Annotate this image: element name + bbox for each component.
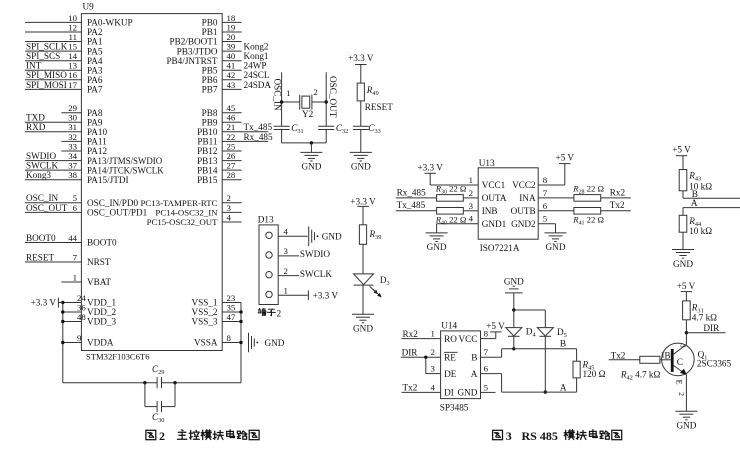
svg-text:OSC_IN: OSC_IN bbox=[272, 79, 282, 112]
svg-text:+5 V: +5 V bbox=[677, 281, 696, 291]
svg-text:GND: GND bbox=[427, 242, 447, 252]
svg-text:+3.3 V: +3.3 V bbox=[313, 290, 339, 300]
svg-text:D13: D13 bbox=[258, 215, 274, 225]
svg-text:1: 1 bbox=[661, 349, 665, 359]
svg-text:18: 18 bbox=[227, 13, 236, 23]
svg-text:2: 2 bbox=[313, 87, 317, 97]
svg-text:4: 4 bbox=[284, 226, 289, 236]
svg-text:SPI_SCLK: SPI_SCLK bbox=[26, 42, 68, 52]
svg-text:2: 2 bbox=[159, 429, 165, 443]
svg-text:4.7 kΩ: 4.7 kΩ bbox=[692, 313, 717, 323]
svg-text:RO: RO bbox=[444, 334, 457, 344]
svg-text:1: 1 bbox=[430, 329, 434, 339]
svg-text:23: 23 bbox=[227, 293, 236, 303]
svg-text:PA8: PA8 bbox=[87, 108, 103, 118]
svg-text:20: 20 bbox=[227, 32, 236, 42]
svg-text:2SC3365: 2SC3365 bbox=[697, 359, 732, 369]
svg-text:5: 5 bbox=[484, 382, 489, 392]
svg-text:DIR: DIR bbox=[703, 323, 720, 333]
svg-text:OSC_OUT: OSC_OUT bbox=[26, 203, 68, 213]
svg-text:PA13/JTMS/SWDIO: PA13/JTMS/SWDIO bbox=[87, 156, 163, 166]
svg-text:26: 26 bbox=[227, 151, 236, 161]
svg-text:2: 2 bbox=[277, 308, 282, 318]
svg-text:3: 3 bbox=[678, 344, 685, 348]
svg-text:2: 2 bbox=[430, 347, 434, 357]
svg-text:43: 43 bbox=[227, 80, 236, 90]
svg-text:Kong3: Kong3 bbox=[26, 170, 51, 180]
svg-text:SWCLK: SWCLK bbox=[300, 269, 333, 279]
svg-text:B: B bbox=[665, 351, 671, 361]
svg-text:3: 3 bbox=[284, 246, 289, 256]
svg-text:7: 7 bbox=[484, 347, 489, 357]
svg-text:PB3/JTDO: PB3/JTDO bbox=[177, 46, 218, 56]
svg-text:44: 44 bbox=[68, 233, 77, 243]
svg-text:4: 4 bbox=[469, 214, 474, 224]
svg-text:+3.3 V: +3.3 V bbox=[31, 298, 57, 308]
svg-text:VCC1: VCC1 bbox=[482, 180, 506, 190]
svg-text:VSS_2: VSS_2 bbox=[191, 307, 217, 317]
svg-text:3: 3 bbox=[469, 201, 474, 211]
svg-text:PA7: PA7 bbox=[87, 85, 103, 95]
svg-text:4: 4 bbox=[430, 382, 435, 392]
svg-text:1: 1 bbox=[284, 286, 288, 296]
svg-text:A: A bbox=[471, 369, 478, 379]
svg-text:2: 2 bbox=[227, 193, 231, 203]
svg-text:PB8: PB8 bbox=[202, 108, 218, 118]
svg-text:12: 12 bbox=[68, 22, 77, 32]
svg-text:PB7: PB7 bbox=[202, 85, 218, 95]
svg-text:RESET: RESET bbox=[26, 252, 54, 262]
svg-text:Tx_485: Tx_485 bbox=[397, 200, 426, 210]
svg-text:6: 6 bbox=[484, 364, 489, 374]
svg-text:GND: GND bbox=[504, 276, 524, 286]
svg-text:PB10: PB10 bbox=[197, 127, 218, 137]
svg-text:RESET: RESET bbox=[365, 102, 393, 112]
svg-text:Rx2: Rx2 bbox=[610, 187, 626, 197]
svg-text:37: 37 bbox=[68, 161, 77, 171]
svg-text:BOOT0: BOOT0 bbox=[26, 233, 56, 243]
svg-text:GND: GND bbox=[546, 242, 566, 252]
svg-text:6: 6 bbox=[73, 203, 78, 213]
svg-text:GND: GND bbox=[265, 338, 285, 348]
svg-text:ISO7221A: ISO7221A bbox=[480, 243, 520, 253]
svg-text:15: 15 bbox=[68, 42, 77, 52]
svg-text:B: B bbox=[471, 353, 477, 363]
svg-text:21: 21 bbox=[227, 122, 236, 132]
svg-text:Rx2: Rx2 bbox=[403, 329, 419, 339]
svg-text:25: 25 bbox=[227, 141, 236, 151]
svg-text:GND: GND bbox=[353, 324, 373, 334]
svg-text:45: 45 bbox=[227, 103, 236, 113]
svg-text:5: 5 bbox=[543, 214, 548, 224]
svg-text:29: 29 bbox=[68, 103, 77, 113]
svg-text:42: 42 bbox=[227, 70, 236, 80]
svg-text:PA6: PA6 bbox=[87, 75, 103, 85]
svg-text:22: 22 bbox=[227, 132, 236, 142]
svg-text:DE: DE bbox=[444, 369, 457, 379]
svg-text:PC13-TAMPER-RTC: PC13-TAMPER-RTC bbox=[141, 198, 218, 208]
svg-text:U9: U9 bbox=[83, 2, 95, 12]
svg-text:8: 8 bbox=[227, 333, 232, 343]
svg-text:PA4: PA4 bbox=[87, 56, 103, 66]
svg-text:VDD_2: VDD_2 bbox=[87, 307, 116, 317]
svg-text:7: 7 bbox=[73, 252, 78, 262]
svg-text:1: 1 bbox=[469, 175, 473, 185]
svg-text:PA15/JTDI: PA15/JTDI bbox=[87, 175, 129, 185]
svg-text:Kong1: Kong1 bbox=[244, 51, 269, 61]
svg-text:OSC_IN: OSC_IN bbox=[26, 193, 59, 203]
svg-text:24WP: 24WP bbox=[244, 61, 267, 71]
svg-text:+3.3 V: +3.3 V bbox=[350, 196, 376, 206]
svg-text:A: A bbox=[691, 198, 698, 208]
svg-text:120 Ω: 120 Ω bbox=[583, 369, 606, 379]
svg-text:38: 38 bbox=[68, 170, 77, 180]
svg-text:2: 2 bbox=[677, 392, 685, 396]
svg-text:SWDIO: SWDIO bbox=[26, 151, 56, 161]
svg-text:OUTB: OUTB bbox=[511, 206, 536, 216]
svg-text:PB9: PB9 bbox=[202, 118, 218, 128]
svg-text:Rx_485: Rx_485 bbox=[397, 187, 427, 197]
svg-text:VBAT: VBAT bbox=[87, 277, 111, 287]
svg-text:PA2: PA2 bbox=[87, 27, 103, 37]
svg-text:33: 33 bbox=[68, 141, 77, 151]
svg-text:DIR: DIR bbox=[402, 347, 419, 357]
svg-text:5: 5 bbox=[73, 193, 78, 203]
svg-text:PB1: PB1 bbox=[202, 27, 218, 37]
svg-text:8: 8 bbox=[543, 175, 548, 185]
svg-text:Rx_485: Rx_485 bbox=[244, 132, 274, 142]
svg-text:VDD_3: VDD_3 bbox=[87, 317, 116, 327]
svg-text:GND2: GND2 bbox=[511, 219, 536, 229]
svg-text:SP3485: SP3485 bbox=[440, 403, 469, 413]
svg-text:2: 2 bbox=[469, 188, 473, 198]
svg-text:PC15-OSC32_OUT: PC15-OSC32_OUT bbox=[147, 217, 218, 227]
svg-text:41: 41 bbox=[227, 61, 236, 71]
svg-text:2: 2 bbox=[284, 266, 288, 276]
svg-text:INT: INT bbox=[26, 61, 42, 71]
svg-text:VCC2: VCC2 bbox=[512, 180, 536, 190]
svg-text:3: 3 bbox=[506, 429, 512, 443]
svg-text:GND: GND bbox=[457, 388, 477, 398]
svg-text:RXD: RXD bbox=[26, 122, 46, 132]
svg-text:+3.3 V: +3.3 V bbox=[348, 53, 374, 63]
svg-text:PB4/JNTRST: PB4/JNTRST bbox=[166, 56, 217, 66]
svg-text:OUTA: OUTA bbox=[482, 193, 507, 203]
svg-text:U13: U13 bbox=[479, 158, 495, 168]
svg-text:B: B bbox=[560, 338, 566, 348]
svg-text:24SCL: 24SCL bbox=[244, 70, 270, 80]
svg-text:7: 7 bbox=[543, 188, 548, 198]
svg-text:GND: GND bbox=[676, 421, 696, 431]
svg-text:GND: GND bbox=[673, 259, 693, 269]
svg-text:BOOT0: BOOT0 bbox=[87, 238, 117, 248]
svg-text:17: 17 bbox=[68, 80, 77, 90]
svg-text:NRST: NRST bbox=[87, 257, 111, 267]
svg-text:SPI_MISO: SPI_MISO bbox=[26, 70, 67, 80]
svg-text:16: 16 bbox=[68, 70, 77, 80]
svg-text:Tx2: Tx2 bbox=[611, 351, 626, 361]
svg-text:PA0-WKUP: PA0-WKUP bbox=[87, 18, 133, 28]
svg-text:24SDA: 24SDA bbox=[244, 80, 272, 90]
svg-text:SPI_SCS: SPI_SCS bbox=[26, 51, 60, 61]
svg-text:SWCLK: SWCLK bbox=[26, 161, 59, 171]
svg-text:PA12: PA12 bbox=[87, 146, 107, 156]
svg-text:Tx2: Tx2 bbox=[403, 382, 418, 392]
svg-text:PA3: PA3 bbox=[87, 66, 103, 76]
svg-text:GND: GND bbox=[322, 232, 342, 242]
svg-text:PB11: PB11 bbox=[197, 137, 217, 147]
svg-text:VDD_1: VDD_1 bbox=[87, 298, 116, 308]
svg-text:GND: GND bbox=[351, 162, 371, 172]
svg-text:35: 35 bbox=[227, 302, 236, 312]
svg-text:OSC_OUT/PD1: OSC_OUT/PD1 bbox=[87, 208, 148, 218]
svg-text:VSS_1: VSS_1 bbox=[191, 298, 217, 308]
svg-text:30: 30 bbox=[68, 113, 77, 123]
svg-text:GND: GND bbox=[301, 162, 321, 172]
svg-text:PB12: PB12 bbox=[197, 146, 218, 156]
svg-text:Y2: Y2 bbox=[302, 109, 314, 119]
svg-text:VDDA: VDDA bbox=[87, 338, 114, 348]
svg-text:10: 10 bbox=[68, 13, 77, 23]
svg-text:U14: U14 bbox=[441, 321, 457, 331]
svg-text:32: 32 bbox=[68, 132, 77, 142]
svg-text:VSS_3: VSS_3 bbox=[191, 317, 217, 327]
svg-text:+5 V: +5 V bbox=[556, 153, 575, 163]
svg-text:47: 47 bbox=[227, 312, 236, 322]
svg-text:13: 13 bbox=[68, 61, 77, 71]
svg-text:E: E bbox=[675, 380, 684, 385]
svg-text:C: C bbox=[677, 358, 683, 368]
svg-text:1: 1 bbox=[286, 88, 290, 98]
svg-text:DI: DI bbox=[444, 388, 454, 398]
svg-text:SWDIO: SWDIO bbox=[300, 249, 330, 259]
svg-text:9: 9 bbox=[77, 333, 82, 343]
svg-text:+5 V: +5 V bbox=[672, 145, 691, 155]
svg-text:40: 40 bbox=[227, 51, 236, 61]
svg-text:11: 11 bbox=[69, 32, 77, 42]
svg-text:PB15: PB15 bbox=[197, 175, 218, 185]
svg-text:34: 34 bbox=[68, 151, 77, 161]
svg-text:36: 36 bbox=[77, 302, 86, 312]
svg-text:10 kΩ: 10 kΩ bbox=[689, 226, 712, 236]
svg-text:+3.3 V: +3.3 V bbox=[417, 162, 443, 172]
svg-text:14: 14 bbox=[68, 51, 77, 61]
svg-text:48: 48 bbox=[77, 312, 86, 322]
svg-text:OSC_IN/PD0: OSC_IN/PD0 bbox=[87, 198, 138, 208]
svg-text:TXD: TXD bbox=[26, 113, 45, 123]
svg-text:RE: RE bbox=[444, 353, 456, 363]
svg-text:GND1: GND1 bbox=[482, 219, 507, 229]
svg-text:PB13: PB13 bbox=[197, 156, 218, 166]
svg-text:PA11: PA11 bbox=[87, 137, 107, 147]
svg-text:Tx_485: Tx_485 bbox=[244, 122, 273, 132]
svg-text:31: 31 bbox=[68, 122, 77, 132]
svg-text:PA9: PA9 bbox=[87, 118, 103, 128]
svg-text:46: 46 bbox=[227, 113, 236, 123]
svg-text:6: 6 bbox=[543, 201, 548, 211]
svg-text:STM32F103C6T6: STM32F103C6T6 bbox=[86, 352, 150, 362]
svg-text:INB: INB bbox=[482, 206, 498, 216]
svg-text:A: A bbox=[560, 383, 567, 393]
svg-text:1: 1 bbox=[73, 272, 77, 282]
svg-text:Kong2: Kong2 bbox=[244, 42, 269, 52]
svg-text:RS 485: RS 485 bbox=[522, 429, 558, 443]
svg-text:24: 24 bbox=[77, 293, 86, 303]
svg-text:VSSA: VSSA bbox=[194, 338, 218, 348]
svg-text:PC14-OSC32_IN: PC14-OSC32_IN bbox=[155, 208, 218, 218]
svg-text:INA: INA bbox=[519, 193, 536, 203]
svg-text:28: 28 bbox=[227, 170, 236, 180]
svg-text:PB6: PB6 bbox=[202, 75, 218, 85]
svg-text:39: 39 bbox=[227, 42, 236, 52]
svg-text:27: 27 bbox=[227, 161, 236, 171]
svg-text:19: 19 bbox=[227, 22, 236, 32]
svg-text:3: 3 bbox=[227, 203, 232, 213]
svg-text:PA10: PA10 bbox=[87, 127, 107, 137]
svg-text:VCC: VCC bbox=[458, 334, 477, 344]
svg-text:+5 V: +5 V bbox=[486, 321, 505, 331]
svg-text:PA5: PA5 bbox=[87, 46, 103, 56]
svg-text:OSC_OUT: OSC_OUT bbox=[328, 76, 338, 118]
svg-text:SPI_MOSI: SPI_MOSI bbox=[26, 80, 67, 90]
svg-text:PB2/BOOT1: PB2/BOOT1 bbox=[170, 37, 218, 47]
svg-text:PA1: PA1 bbox=[87, 37, 103, 47]
svg-text:4: 4 bbox=[227, 212, 232, 222]
svg-text:Tx2: Tx2 bbox=[610, 200, 625, 210]
svg-text:PB5: PB5 bbox=[202, 66, 218, 76]
svg-text:PB0: PB0 bbox=[202, 18, 218, 28]
svg-text:PA14/JTCK/SWCLK: PA14/JTCK/SWCLK bbox=[87, 165, 164, 175]
svg-text:3: 3 bbox=[430, 364, 435, 374]
svg-text:PB14: PB14 bbox=[197, 165, 218, 175]
